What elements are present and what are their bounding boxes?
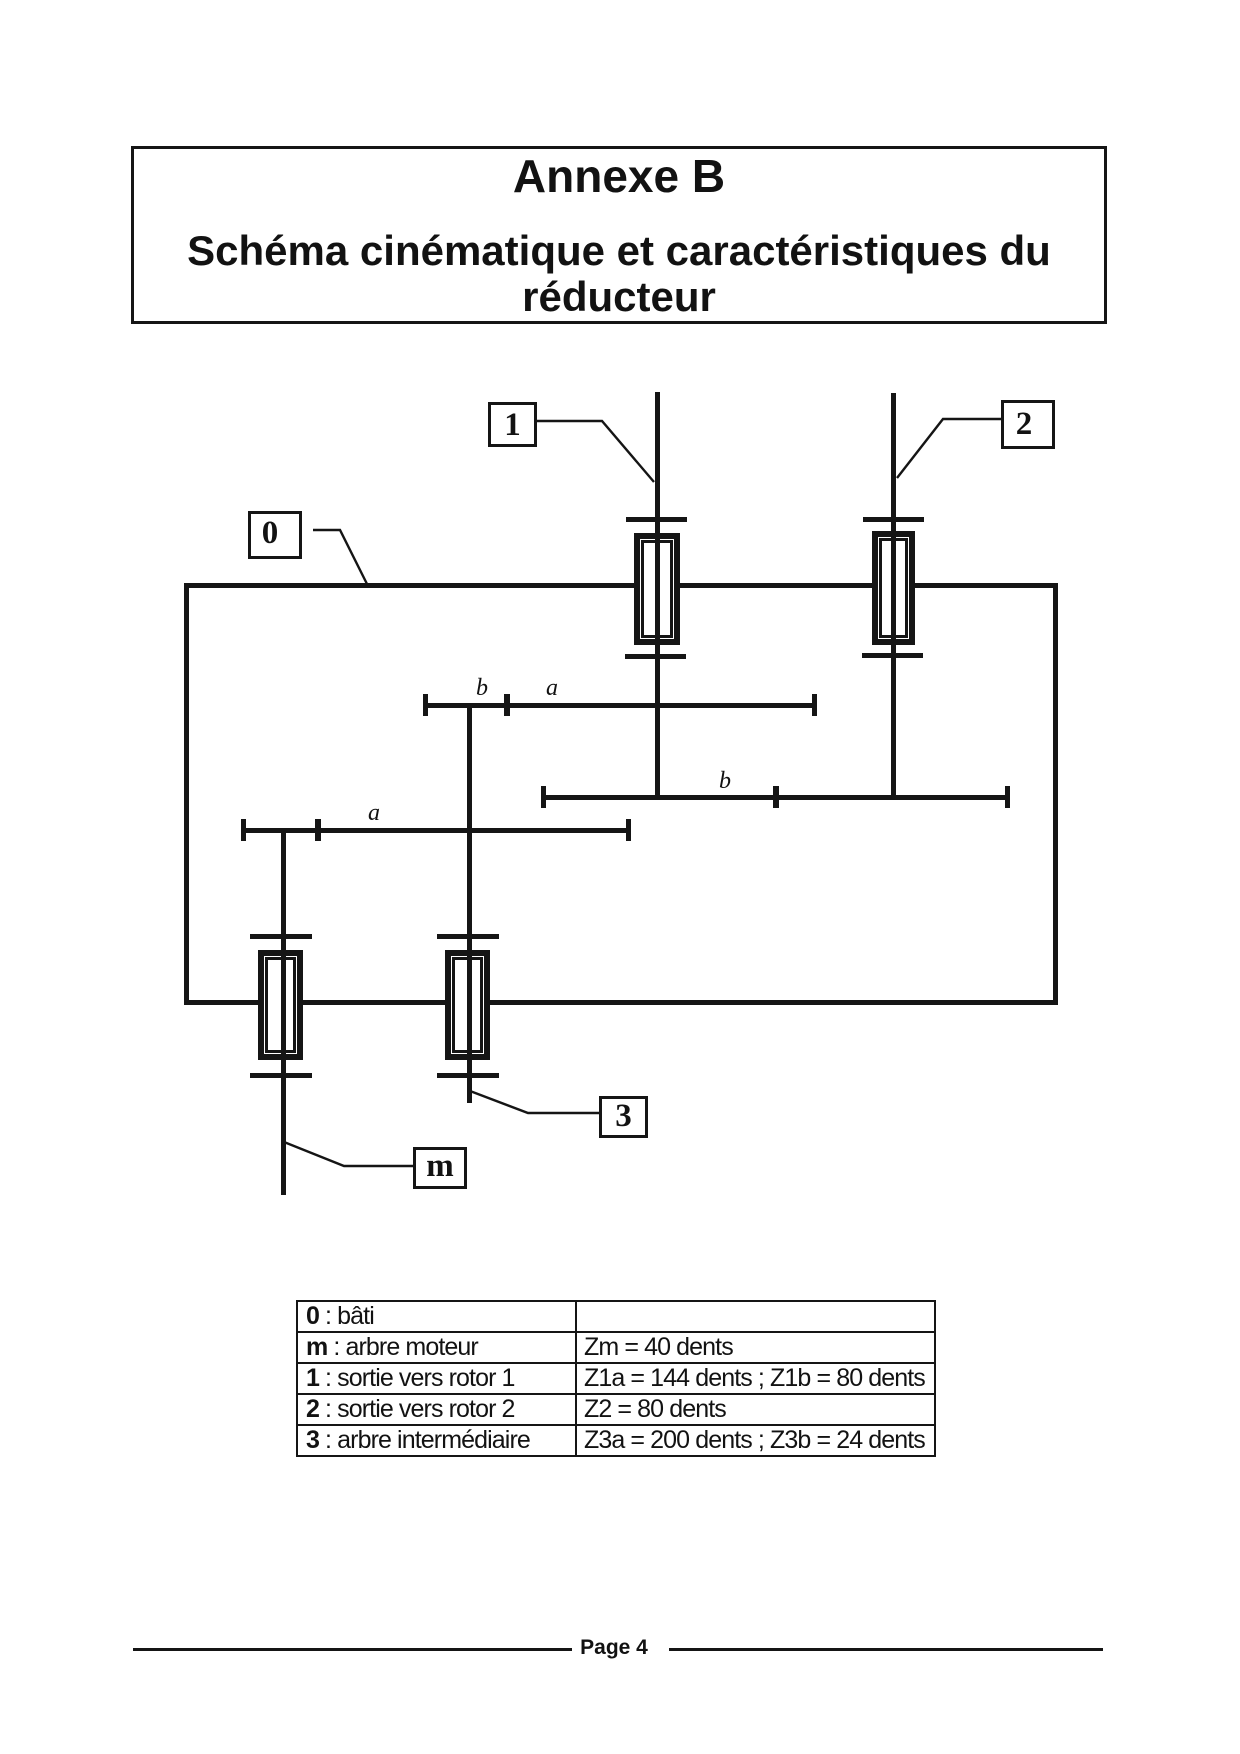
shaft m bbox=[281, 830, 286, 1195]
casing 0 : top wall segment B bbox=[680, 583, 873, 588]
title lines 2-3 bbox=[131, 228, 1107, 320]
bearing m : outer rect bbox=[258, 950, 303, 1060]
casing 0 : right wall bbox=[1053, 583, 1058, 1005]
bearing 3 : inner rect bbox=[452, 957, 483, 1053]
bearing 3 : upper tick bbox=[437, 934, 499, 939]
bearing 1 : outer rect bbox=[634, 533, 680, 645]
shaft 2 through bearing bbox=[891, 531, 896, 645]
tick left bbox=[541, 786, 546, 808]
tick right bbox=[812, 694, 817, 716]
gear line 1b-2 bbox=[541, 795, 1010, 800]
bearing m : lower tick bbox=[250, 1073, 312, 1078]
title line 1 bbox=[131, 151, 1107, 201]
box 0 bbox=[248, 511, 302, 559]
box 2 bbox=[1001, 400, 1055, 449]
shaft 3 through bearing bbox=[467, 950, 472, 1060]
casing 0 : left wall bbox=[184, 583, 189, 1005]
shaft m through bearing bbox=[281, 950, 286, 1060]
bearing m : inner rect bbox=[265, 957, 296, 1053]
bearing 3 : outer rect bbox=[445, 950, 490, 1060]
bearing 1 : lower tick bbox=[625, 654, 686, 659]
casing 0 : bottom wall segment A bbox=[184, 1000, 258, 1005]
bearing 2 : upper tick bbox=[863, 517, 924, 522]
casing 0 : top wall segment C bbox=[915, 583, 1058, 588]
label b bbox=[476, 676, 488, 700]
tick right bbox=[1005, 786, 1010, 808]
tick left bbox=[423, 694, 428, 716]
tick right bbox=[626, 819, 631, 841]
leader box m bbox=[284, 1142, 413, 1166]
leader box 3 bbox=[470, 1091, 599, 1113]
leader box 1 bbox=[537, 421, 654, 482]
label b bbox=[719, 769, 731, 793]
casing 0 : bottom wall segment C bbox=[490, 1000, 1058, 1005]
gear line m-3a bbox=[241, 828, 631, 833]
title box bbox=[131, 146, 1107, 324]
box m bbox=[413, 1147, 467, 1189]
casing 0 : top wall segment A bbox=[184, 583, 634, 588]
label a bbox=[546, 676, 558, 700]
box 3 bbox=[599, 1096, 648, 1138]
shaft 1 bbox=[655, 392, 660, 799]
tick mid bbox=[315, 819, 321, 841]
leader box 0 bbox=[313, 530, 367, 584]
leader box 2 bbox=[897, 419, 1001, 478]
bearing 3 : lower tick bbox=[437, 1073, 499, 1078]
shaft 3 bbox=[467, 705, 472, 1103]
footer bbox=[133, 1648, 572, 1651]
tick mid bbox=[504, 694, 510, 716]
bearing 2 : outer rect bbox=[872, 531, 915, 645]
casing 0 : bottom wall segment B bbox=[302, 1000, 445, 1005]
bearing 1 : inner rect bbox=[641, 540, 673, 638]
bearing 2 : lower tick bbox=[862, 653, 923, 658]
shaft 2 bbox=[891, 393, 896, 799]
box 1 bbox=[488, 402, 537, 447]
label a bbox=[368, 801, 380, 825]
bearing m : upper tick bbox=[250, 934, 312, 939]
bearing 2 : inner rect bbox=[879, 538, 908, 638]
tick mid bbox=[773, 786, 779, 808]
shaft 1 through bearing bbox=[655, 533, 660, 645]
gear line 3b-1a bbox=[423, 703, 816, 708]
tick left bbox=[241, 819, 246, 841]
bearing 1 : upper tick bbox=[626, 517, 687, 522]
